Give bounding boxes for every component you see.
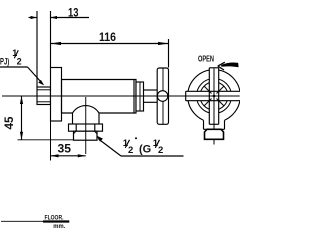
outlet nut <box>69 124 103 131</box>
label half G half <box>123 137 163 156</box>
svg-text:(G: (G <box>139 144 151 156</box>
front vertical spoke strokes <box>208 68 210 125</box>
handle hub circle <box>157 91 168 102</box>
front vertical centerline <box>213 69 215 145</box>
dimension 45 line <box>21 96 23 140</box>
dim 35 arrow left <box>51 154 59 157</box>
front horizontal spoke strokes <box>186 90 241 92</box>
hub diagonal webs <box>217 86 224 93</box>
dimension 116 line <box>51 43 169 45</box>
dimension 116 arrow left <box>51 42 62 45</box>
floor line thick <box>43 220 69 222</box>
handle side view bar <box>157 68 168 124</box>
front spokes fills <box>209 68 218 125</box>
front outlet nut <box>205 129 224 139</box>
front view outer circle <box>188 70 241 123</box>
dimension 13 arrow left <box>31 16 38 19</box>
dimension 13 line <box>29 17 38 19</box>
dim 35 arrow right <box>78 154 86 157</box>
valve body <box>62 80 137 114</box>
svg-text:2: 2 <box>158 145 163 156</box>
extension line outlet bottom <box>18 139 74 141</box>
leader PJ half underline <box>0 66 28 68</box>
svg-text:PJ): PJ) <box>0 56 9 67</box>
outlet thread <box>74 131 98 140</box>
wall extension line <box>36 11 38 87</box>
dim 45 arrow bottom <box>20 132 23 140</box>
front body tab <box>204 117 225 129</box>
center stem dot <box>212 94 216 98</box>
svg-text:FLOOR.: FLOOR. <box>45 215 64 222</box>
inlet shank <box>37 87 51 105</box>
svg-text:35: 35 <box>58 143 72 155</box>
svg-text:45: 45 <box>4 116 16 130</box>
leader PJ diagonal <box>28 67 42 83</box>
svg-text:2: 2 <box>17 56 22 66</box>
bonnet collar <box>136 82 144 111</box>
leader G half arrowhead <box>96 136 103 142</box>
body end cap line <box>133 80 135 114</box>
svg-text:mm.: mm. <box>53 223 65 230</box>
svg-text:OPEN: OPEN <box>198 54 214 63</box>
leader G half diagonal <box>99 139 122 156</box>
flange face extension line <box>50 11 52 68</box>
dimension 13 arrow right <box>51 16 58 19</box>
floor line thin <box>1 220 43 222</box>
stem <box>144 89 158 91</box>
dimension 35 line <box>51 155 86 157</box>
svg-text:116: 116 <box>99 32 116 44</box>
dimension 116 arrow right <box>158 42 169 45</box>
wall flange <box>51 68 62 122</box>
front view hub circle inner <box>200 82 228 110</box>
dim 45 arrow top <box>20 96 23 104</box>
extension line flange bottom <box>50 121 52 161</box>
extension line handle front <box>168 39 170 68</box>
OPEN arrow <box>218 62 225 70</box>
svg-text:13: 13 <box>68 8 79 20</box>
main horizontal centerline <box>2 95 240 97</box>
front view hub circle outer <box>197 79 232 114</box>
leader G half underline <box>121 155 184 157</box>
elbow dome <box>73 106 100 113</box>
outlet centerline <box>85 97 87 154</box>
svg-text:2: 2 <box>128 145 133 156</box>
leader PJ arrowhead <box>38 80 44 86</box>
